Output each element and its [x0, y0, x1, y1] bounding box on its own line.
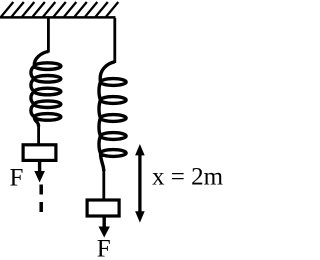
wire from spring S2 to mass M2: [102, 170, 105, 200]
wire from ceiling to spring S2: [113, 18, 116, 63]
wire from spring S1 to mass M1: [37, 126, 40, 145]
wire from ceiling to spring S1: [47, 18, 50, 53]
svg-text:F: F: [97, 235, 111, 260]
extension double-headed arrow: [135, 144, 145, 223]
spring S2 (right, stretched): [99, 62, 126, 171]
svg-text:F: F: [10, 165, 24, 192]
force arrow F1: [34, 161, 45, 183]
dashed line below force arrow F1: [39, 185, 43, 213]
ceiling hatching: [1, 2, 118, 17]
svg-text:x = 2m: x = 2m: [152, 164, 224, 191]
mass M2 (right box): [87, 200, 119, 216]
ceiling line: [0, 16, 116, 19]
mass M1 (left box): [23, 145, 56, 161]
force arrow F2: [99, 216, 110, 238]
spring S1 (left, natural length): [31, 52, 61, 127]
